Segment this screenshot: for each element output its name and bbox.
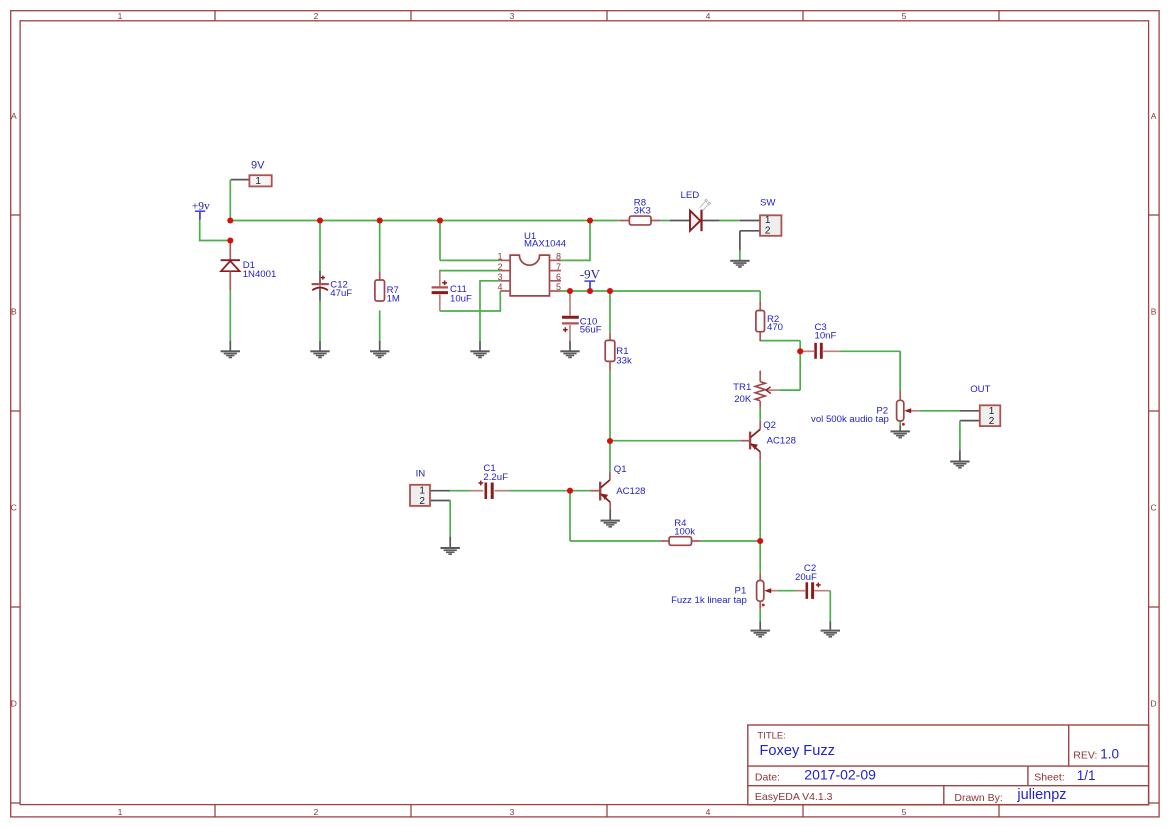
svg-text:2: 2 bbox=[419, 496, 425, 507]
svg-text:5: 5 bbox=[902, 11, 907, 21]
svg-text:5: 5 bbox=[902, 807, 907, 817]
svg-text:Date:: Date: bbox=[755, 771, 780, 783]
svg-text:5: 5 bbox=[556, 282, 561, 292]
svg-text:A: A bbox=[11, 111, 17, 121]
svg-text:1/1: 1/1 bbox=[1077, 768, 1096, 783]
svg-text:56uF: 56uF bbox=[580, 324, 602, 335]
svg-text:SW: SW bbox=[760, 198, 776, 209]
svg-text:Fuzz 1k linear tap: Fuzz 1k linear tap bbox=[671, 595, 747, 606]
svg-text:OUT: OUT bbox=[970, 384, 990, 395]
svg-text:4: 4 bbox=[706, 11, 711, 21]
svg-text:470: 470 bbox=[767, 322, 783, 333]
svg-text:-9V: -9V bbox=[580, 267, 601, 282]
svg-text:AC128: AC128 bbox=[616, 486, 645, 497]
svg-text:Sheet:: Sheet: bbox=[1034, 771, 1064, 783]
svg-text:Q2: Q2 bbox=[763, 420, 776, 431]
svg-text:TITLE:: TITLE: bbox=[757, 731, 786, 742]
svg-text:REV:: REV: bbox=[1073, 749, 1097, 761]
svg-text:2: 2 bbox=[497, 262, 502, 272]
svg-text:33k: 33k bbox=[616, 355, 632, 366]
svg-text:8: 8 bbox=[556, 252, 561, 262]
svg-text:9V: 9V bbox=[251, 160, 265, 172]
svg-text:Foxey Fuzz: Foxey Fuzz bbox=[760, 743, 835, 759]
svg-text:Drawn By:: Drawn By: bbox=[954, 792, 1002, 804]
svg-text:AC128: AC128 bbox=[767, 435, 796, 446]
svg-text:20K: 20K bbox=[734, 394, 752, 405]
svg-text:Q1: Q1 bbox=[614, 464, 627, 475]
svg-text:D: D bbox=[1151, 699, 1157, 709]
svg-text:2: 2 bbox=[314, 807, 319, 817]
svg-text:3: 3 bbox=[497, 272, 502, 282]
svg-text:1N4001: 1N4001 bbox=[243, 269, 277, 280]
svg-text:2: 2 bbox=[765, 226, 771, 237]
svg-text:20uF: 20uF bbox=[795, 572, 817, 583]
svg-text:3: 3 bbox=[510, 807, 515, 817]
svg-text:4: 4 bbox=[497, 282, 502, 292]
svg-text:3: 3 bbox=[510, 11, 515, 21]
svg-text:MAX1044: MAX1044 bbox=[524, 239, 567, 250]
svg-text:IN: IN bbox=[416, 469, 426, 480]
svg-text:1.0: 1.0 bbox=[1100, 747, 1119, 762]
svg-text:4: 4 bbox=[706, 807, 711, 817]
svg-text:3K3: 3K3 bbox=[634, 206, 651, 217]
svg-text:C: C bbox=[11, 503, 17, 513]
svg-text:6: 6 bbox=[556, 272, 561, 282]
svg-text:7: 7 bbox=[556, 262, 561, 272]
svg-text:1: 1 bbox=[255, 176, 261, 187]
svg-text:1: 1 bbox=[118, 11, 123, 21]
svg-text:2: 2 bbox=[314, 11, 319, 21]
svg-text:EasyEDA V4.1.3: EasyEDA V4.1.3 bbox=[755, 791, 833, 803]
svg-text:1M: 1M bbox=[387, 294, 400, 305]
svg-text:julienpz: julienpz bbox=[1016, 787, 1066, 803]
svg-text:B: B bbox=[1151, 307, 1157, 317]
svg-text:2.2uF: 2.2uF bbox=[483, 472, 508, 483]
svg-text:C: C bbox=[1151, 503, 1157, 513]
svg-text:D: D bbox=[11, 699, 17, 709]
svg-text:1: 1 bbox=[118, 807, 123, 817]
svg-text:10nF: 10nF bbox=[815, 330, 837, 341]
svg-text:47uF: 47uF bbox=[330, 288, 352, 299]
svg-text:1: 1 bbox=[497, 252, 502, 262]
svg-text:2: 2 bbox=[989, 416, 995, 427]
svg-text:B: B bbox=[11, 307, 17, 317]
svg-text:TR1: TR1 bbox=[733, 382, 751, 393]
svg-text:100k: 100k bbox=[674, 527, 695, 538]
svg-text:vol 500k audio tap: vol 500k audio tap bbox=[811, 414, 889, 425]
svg-text:LED: LED bbox=[681, 190, 700, 201]
svg-text:2017-02-09: 2017-02-09 bbox=[804, 767, 876, 783]
svg-text:10uF: 10uF bbox=[450, 293, 472, 304]
svg-text:A: A bbox=[1151, 111, 1157, 121]
